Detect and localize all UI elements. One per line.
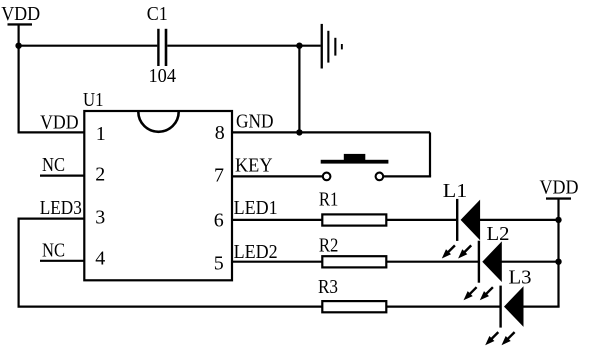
wire: pin 6 to R1 bbox=[232, 219, 322, 221]
wire: VDD bus vertical bbox=[557, 199, 559, 307]
wire: pin 1 bbox=[18, 131, 85, 133]
wire: pin 7 to button bbox=[232, 175, 323, 177]
wire: pin 5 to R2 bbox=[232, 261, 322, 263]
svg-text:7: 7 bbox=[214, 165, 224, 187]
LED L3 bbox=[485, 286, 523, 346]
wire: C1 right plate to ground bbox=[167, 45, 320, 47]
wire: pin 8 to ground junction bbox=[232, 131, 299, 133]
wire: L2 to bus bbox=[501, 261, 559, 263]
capacitor C1 plates bbox=[157, 29, 167, 66]
node: GND pin 8 junction bbox=[296, 129, 302, 135]
svg-text:NC: NC bbox=[42, 240, 65, 262]
wire: pin 4 stub bbox=[40, 260, 84, 262]
svg-text:L1: L1 bbox=[443, 180, 468, 202]
svg-text:U1: U1 bbox=[83, 89, 104, 111]
svg-text:VDD: VDD bbox=[1, 3, 40, 25]
wire: pin 2 stub bbox=[40, 175, 84, 177]
wire: button loop right vertical bbox=[429, 132, 431, 176]
svg-text:GND: GND bbox=[236, 111, 274, 133]
svg-text:KEY: KEY bbox=[235, 155, 273, 177]
wire: R1 to L1 bbox=[386, 219, 457, 221]
svg-text:4: 4 bbox=[95, 247, 105, 269]
ground bbox=[321, 24, 343, 69]
wire: pin 3 loop vertical bbox=[18, 219, 20, 307]
node: VDD / C1 junction bbox=[15, 43, 21, 49]
IC U1 body bbox=[84, 111, 232, 280]
svg-text:VDD: VDD bbox=[540, 177, 579, 199]
svg-text:C1: C1 bbox=[147, 3, 168, 25]
LED L2 bbox=[464, 241, 502, 301]
svg-text:LED2: LED2 bbox=[234, 241, 278, 263]
svg-text:104: 104 bbox=[149, 65, 177, 87]
wire: button right terminal bbox=[384, 175, 431, 177]
svg-text:LED3: LED3 bbox=[40, 197, 82, 219]
svg-text:VDD: VDD bbox=[40, 112, 79, 134]
svg-text:LED1: LED1 bbox=[234, 197, 278, 219]
svg-text:5: 5 bbox=[214, 252, 224, 274]
power flag VDD (top-right) bbox=[540, 177, 579, 200]
svg-text:1: 1 bbox=[96, 123, 106, 145]
svg-text:3: 3 bbox=[95, 206, 105, 228]
node: ground net top junction bbox=[296, 43, 302, 49]
svg-text:R2: R2 bbox=[319, 234, 339, 256]
wire: R2 to L2 bbox=[386, 261, 479, 263]
wire: R3 to L3 bbox=[386, 306, 500, 308]
node: bus / LED1 row junction bbox=[555, 217, 561, 223]
svg-text:NC: NC bbox=[42, 154, 65, 176]
wire: VDD flag down to pin 1 row bbox=[18, 25, 20, 132]
wire: pin 3 loop bottom to R3 bbox=[18, 306, 323, 308]
wire: button loop top bbox=[299, 131, 430, 133]
svg-text:L3: L3 bbox=[509, 267, 532, 289]
wire: L3 to bus bbox=[522, 306, 559, 308]
svg-text:L2: L2 bbox=[487, 223, 510, 245]
svg-text:R1: R1 bbox=[319, 189, 339, 211]
resistor R1 bbox=[322, 214, 386, 225]
node: bus / LED2 row junction bbox=[555, 259, 561, 265]
LED L1 bbox=[442, 199, 480, 259]
pushbutton KEY bbox=[321, 154, 389, 180]
svg-text:2: 2 bbox=[95, 164, 105, 186]
wire: L1 to bus bbox=[479, 219, 559, 221]
svg-text:8: 8 bbox=[215, 122, 225, 144]
wire: ground junction down to GND pin row bbox=[298, 46, 300, 133]
resistor R3 bbox=[322, 301, 386, 312]
svg-text:R3: R3 bbox=[318, 276, 338, 298]
wire: VDD junction to C1 left plate bbox=[18, 45, 158, 47]
resistor R2 bbox=[322, 256, 386, 267]
power flag VDD (top-left) bbox=[1, 3, 40, 26]
wire: pin 3 bbox=[18, 218, 85, 220]
svg-text:6: 6 bbox=[214, 209, 224, 231]
